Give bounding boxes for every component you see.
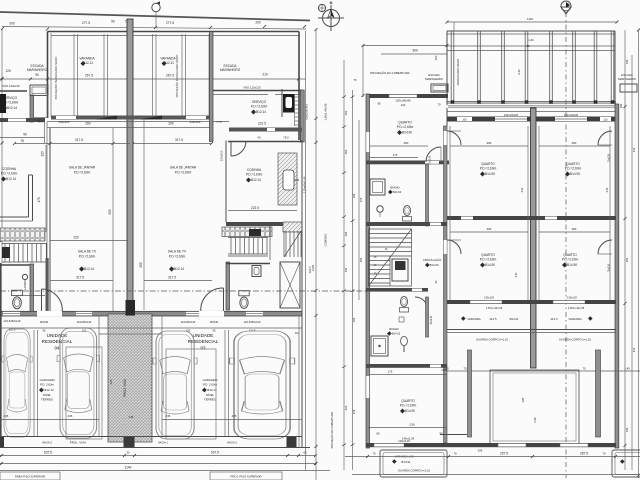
svg-text:B14.90: B14.90 (485, 263, 495, 267)
svg-text:P.D.=2,60m: P.D.=2,60m (246, 173, 263, 177)
cozinha right appliances (222, 227, 272, 237)
cozinha right top wall + door (229, 128, 302, 132)
svg-text:75: 75 (353, 78, 357, 82)
svg-text:P.D.=2,60m: P.D.=2,60m (251, 105, 268, 109)
escada marinheiro box left (30, 85, 48, 96)
svg-text:253: 253 (625, 257, 629, 262)
svg-text:120: 120 (5, 69, 11, 73)
dim lines under verandah wall (47, 121, 229, 123)
sala de jantar left wall (49, 128, 51, 312)
entrance door left unit (41, 289, 43, 312)
right terrace wall y85 (213, 90, 302, 92)
svg-text:PERGOLADO VAZIO: PERGOLADO VAZIO (456, 58, 460, 86)
svg-text:40: 40 (257, 136, 261, 140)
svg-text:423: 423 (344, 405, 348, 410)
svg-text:B14.92: B14.92 (392, 332, 401, 336)
left edge dim line (1, 29, 3, 263)
lavabo right (226, 262, 230, 310)
svg-text:175: 175 (388, 370, 393, 374)
svg-text:VARANDA: VARANDA (160, 57, 176, 61)
svg-text:120x140x95: 120x140x95 (395, 99, 411, 103)
svg-text:263: 263 (344, 149, 348, 154)
pergola structure (447, 30, 615, 32)
svg-text:PROL. VIGA: PROL. VIGA (70, 441, 86, 445)
left side vertical dim lines right plan (343, 60, 345, 470)
svg-text:COMODO: COMODO (324, 234, 328, 246)
svg-text:85: 85 (526, 44, 530, 48)
svg-text:P.D.=2,60m: P.D.=2,60m (397, 125, 414, 129)
outer walls right plan (366, 94, 370, 448)
svg-text:100x140x95: 100x140x95 (564, 113, 579, 117)
svg-text:PROJEÇÃO PERGOLADO VAZIO: PROJEÇÃO PERGOLADO VAZIO (53, 56, 58, 100)
svg-text:235: 235 (4, 414, 9, 418)
svg-text:P.D.=2,60m: P.D.=2,60m (79, 255, 96, 259)
pergola bottom lines with beam feet (447, 101, 616, 103)
svg-text:VÃO 120x210: VÃO 120x210 (2, 83, 20, 88)
svg-text:P.D.=2,60m: P.D.=2,60m (565, 167, 582, 171)
svg-text:BANHO: BANHO (390, 186, 400, 190)
svg-text:SALA DE TV: SALA DE TV (168, 250, 187, 254)
svg-text:30: 30 (126, 451, 130, 455)
svg-text:280: 280 (572, 141, 577, 145)
svg-text:QUARTO: QUARTO (398, 121, 412, 125)
svg-text:90: 90 (35, 73, 39, 77)
svg-text:SALA DE JANTAR: SALA DE JANTAR (170, 166, 197, 170)
vaga projection rects (66, 347, 102, 439)
svg-text:70: 70 (372, 452, 376, 456)
svg-text:60x210: 60x210 (429, 315, 433, 324)
svg-text:95: 95 (43, 329, 46, 333)
svg-text:B14.90: B14.90 (570, 172, 580, 176)
svg-text:267.5: 267.5 (166, 74, 174, 78)
door sill triangles (95, 116, 117, 120)
svg-text:90: 90 (23, 133, 27, 137)
svg-text:1140: 1140 (125, 466, 132, 470)
svg-text:200: 200 (255, 21, 261, 25)
pergola beams (451, 31, 614, 104)
svg-text:260: 260 (168, 122, 174, 126)
svg-text:317.5: 317.5 (175, 138, 183, 142)
svg-text:VAGA 2: VAGA 2 (227, 441, 237, 445)
svg-text:260: 260 (85, 122, 91, 126)
svg-text:210: 210 (520, 187, 524, 192)
svg-text:145: 145 (129, 415, 134, 419)
under-stair void with X brace (280, 262, 300, 308)
party wall stub dark (126, 300, 136, 316)
svg-text:212.5: 212.5 (551, 317, 558, 321)
top dimension line (2, 27, 306, 30)
cozinha right counter/sink (278, 153, 297, 205)
wall banho2 bottom (366, 364, 447, 368)
vaga divider lines (33, 330, 35, 437)
svg-text:537.5: 537.5 (44, 451, 52, 455)
svg-text:267.5: 267.5 (85, 74, 93, 78)
svg-text:76.5: 76.5 (283, 136, 289, 140)
escada marinheiro hatch right of plan (295, 94, 301, 126)
right unit outer wall (298, 32, 300, 141)
svg-text:277.5: 277.5 (166, 21, 174, 25)
svg-text:122,5x80x140: 122,5x80x140 (244, 320, 261, 324)
svg-text:P.D.=2,60m: P.D.=2,60m (1, 172, 18, 176)
svg-text:TÉRREO: TÉRREO (41, 397, 54, 402)
svg-text:277.5: 277.5 (82, 21, 90, 25)
svg-text:300: 300 (412, 49, 418, 53)
svg-text:1,70x40x1,40: 1,70x40x1,40 (303, 176, 307, 193)
svg-text:120: 120 (401, 103, 406, 107)
door arc cozinha right (231, 141, 246, 156)
bottom varanda box left (380, 450, 447, 477)
svg-text:MARINHEIRO: MARINHEIRO (618, 77, 637, 81)
svg-text:B14.90: B14.90 (567, 263, 577, 267)
svg-text:VARANDA: VARANDA (467, 317, 480, 321)
wall quartos bottom / varanda (447, 300, 616, 304)
stairs right unit upper run (228, 238, 268, 257)
svg-text:170: 170 (37, 197, 41, 203)
svg-text:100: 100 (625, 427, 629, 432)
svg-text:280: 280 (572, 227, 577, 231)
svg-text:B12.14: B12.14 (84, 267, 94, 271)
svg-text:100: 100 (82, 329, 87, 333)
verandah bottom wall (51, 116, 213, 120)
svg-text:1,50x1,40x,95: 1,50x1,40x,95 (486, 306, 503, 310)
quarto row top wall (447, 117, 616, 122)
top wall left section with window (366, 94, 448, 98)
svg-text:253: 253 (344, 110, 348, 115)
guarda corpo rail (447, 329, 616, 331)
svg-text:B14.91: B14.91 (510, 317, 519, 321)
svg-text:GUARDA CORPO h=1,10: GUARDA CORPO h=1,10 (398, 469, 431, 473)
banho 2 (400, 297, 409, 313)
verandah mullions right unit (152, 34, 154, 116)
svg-text:90/240: 90/240 (210, 320, 219, 324)
entrance door right unit (223, 288, 225, 312)
svg-text:254: 254 (344, 267, 348, 272)
svg-text:420: 420 (109, 379, 113, 384)
cars (2, 329, 32, 437)
servico right walls (281, 89, 283, 117)
svg-text:RESIDENCIAL: RESIDENCIAL (42, 339, 73, 344)
svg-text:VARANDA: VARANDA (568, 317, 581, 321)
svg-text:P.D.=2,60m: P.D.=2,60m (169, 255, 186, 259)
svg-text:50: 50 (111, 20, 115, 24)
svg-text:317.5: 317.5 (75, 138, 83, 142)
svg-text:GUARDA CORPO h=1,10: GUARDA CORPO h=1,10 (559, 338, 592, 342)
svg-text:P.D. 2,60m: P.D. 2,60m (203, 383, 218, 387)
svg-text:COZINHA: COZINHA (2, 167, 17, 171)
svg-text:95: 95 (213, 329, 216, 333)
svg-text:MARINHEIRO: MARINHEIRO (27, 68, 48, 72)
hall wall dark (46, 258, 49, 312)
svg-text:240x210: 240x210 (59, 120, 70, 124)
corridor verticals between rooms middle (449, 126, 451, 300)
svg-text:60x(15x140): 60x(15x140) (305, 104, 309, 120)
garage side walls (0, 263, 2, 448)
svg-text:70: 70 (602, 452, 606, 456)
svg-text:254: 254 (344, 231, 348, 236)
corridor wall verticals (426, 164, 429, 226)
section line horizontal (0, 290, 367, 292)
wall quarto1/banho1 (366, 161, 449, 165)
svg-text:VARANDA: VARANDA (79, 57, 95, 61)
svg-text:P.D.=2,60m: P.D.=2,60m (175, 171, 192, 175)
verandah top wall (48, 31, 300, 33)
svg-text:ÁREA PISO SUPERIOR: ÁREA PISO SUPERIOR (15, 475, 45, 479)
window dim labels row (4, 319, 300, 335)
garagem text right (203, 378, 218, 402)
svg-text:103: 103 (352, 317, 356, 322)
central party wall right plan (531, 108, 537, 368)
door arcs corridor (426, 147, 441, 162)
svg-text:70: 70 (463, 367, 467, 371)
svg-text:N: N (330, 1, 333, 5)
svg-text:317.5: 317.5 (76, 276, 84, 280)
317.5 dim lines (14, 143, 130, 145)
svg-text:80: 80 (377, 102, 381, 106)
cozinha right bottom (228, 210, 297, 212)
svg-text:240x210: 240x210 (190, 120, 201, 124)
svg-text:SALA DE TV: SALA DE TV (78, 250, 97, 254)
267.5 dim line across (0, 78, 306, 80)
right unit wall x212 (210, 32, 214, 142)
svg-text:70: 70 (437, 103, 441, 107)
svg-text:PROJ. VIGA: PROJ. VIGA (123, 378, 127, 397)
svg-text:110: 110 (603, 118, 608, 122)
svg-text:77.5: 77.5 (216, 120, 222, 124)
svg-text:1140: 1140 (527, 17, 533, 21)
svg-text:70: 70 (582, 367, 586, 371)
svg-text:CIRCULAÇÃO: CIRCULAÇÃO (423, 257, 442, 262)
dim ticks (1, 25, 306, 31)
svg-text:QUARTO: QUARTO (401, 399, 415, 403)
right side vertical dim lines of left plan (305, 31, 307, 470)
svg-text:B12.14: B12.14 (256, 110, 266, 114)
svg-text:257.5: 257.5 (500, 452, 508, 456)
svg-text:385: 385 (521, 397, 525, 402)
banho 1 (370, 179, 385, 195)
svg-text:UNIDADE: UNIDADE (193, 333, 214, 338)
svg-text:300: 300 (9, 22, 15, 26)
svg-text:175: 175 (393, 153, 398, 157)
svg-text:P.D.=2,60m: P.D.=2,60m (562, 258, 579, 262)
svg-text:B14.90: B14.90 (402, 131, 412, 135)
svg-text:1,50x1,40x,95: 1,50x1,40x,95 (568, 306, 585, 310)
svg-text:PROJEÇÃO DA COBERTURA: PROJEÇÃO DA COBERTURA (370, 70, 410, 75)
stairs left unit (2, 244, 46, 263)
left servico walls (0, 90, 27, 92)
svg-text:BANHO: BANHO (389, 327, 399, 331)
terrace below varanda (447, 370, 640, 372)
svg-text:100: 100 (434, 55, 438, 60)
svg-text:P.D.=2,60m: P.D.=2,60m (74, 171, 91, 175)
svg-text:SERVIÇO: SERVIÇO (252, 100, 267, 104)
varanda strip labels (461, 316, 466, 321)
svg-text:RESIDENCIAL: RESIDENCIAL (188, 339, 219, 344)
site boundary line top (0, 12, 310, 21)
svg-text:130x120: 130x120 (567, 296, 578, 300)
top-left dims of right plan (363, 45, 447, 47)
svg-text:905: 905 (139, 262, 143, 268)
svg-text:70x210: 70x210 (428, 155, 432, 164)
section marker top (561, 1, 571, 11)
proj viga hatched strip (108, 314, 152, 442)
verandah mullions left unit (73, 34, 75, 116)
svg-text:110x210: 110x210 (220, 150, 224, 161)
svg-text:280: 280 (487, 227, 492, 231)
svg-text:537.5: 537.5 (211, 451, 219, 455)
svg-text:235: 235 (232, 414, 237, 418)
svg-text:41.5: 41.5 (37, 120, 43, 124)
small marker circle left of compass (318, 4, 325, 11)
svg-text:215: 215 (359, 197, 363, 202)
svg-text:QUARTO: QUARTO (481, 162, 495, 166)
svg-text:03: 03 (200, 346, 206, 351)
terrace side walls (468, 350, 472, 437)
right edge dim lines (624, 30, 626, 470)
svg-text:B12.13: B12.13 (44, 388, 54, 392)
svg-text:78: 78 (20, 139, 24, 143)
svg-text:P.D. 2,60m: P.D. 2,60m (40, 383, 55, 387)
svg-text:2,40: 2,40 (517, 69, 521, 75)
svg-text:140x(2,39: 140x(2,39 (398, 439, 410, 443)
small wall stub (440, 434, 467, 436)
svg-text:04: 04 (54, 346, 60, 351)
svg-text:B12.13: B12.13 (207, 388, 217, 392)
svg-text:B12.14: B12.14 (7, 106, 17, 110)
front wall gray band with openings (0, 311, 302, 316)
bottom dims (0, 455, 316, 457)
svg-text:B12.14: B12.14 (251, 178, 261, 182)
svg-text:110x80x140: 110x80x140 (77, 320, 92, 324)
svg-text:280: 280 (487, 141, 492, 145)
courtyard rect (490, 370, 579, 444)
svg-text:100: 100 (352, 193, 356, 198)
svg-text:P.D.=2,60m: P.D.=2,60m (480, 167, 497, 171)
svg-text:220: 220 (73, 236, 79, 240)
svg-text:130x120: 130x120 (484, 296, 495, 300)
svg-text:410: 410 (632, 347, 636, 352)
svg-text:280: 280 (619, 103, 623, 108)
svg-text:1225: 1225 (311, 264, 315, 271)
servico tub right (dark) (283, 94, 295, 113)
cozinha left counter (28, 175, 30, 217)
svg-text:80: 80 (376, 432, 380, 436)
cozinha left appliances row (0, 228, 45, 241)
svg-text:GUARDA CORPO h=1,10: GUARDA CORPO h=1,10 (476, 338, 509, 342)
svg-text:VÃO 120x210: VÃO 120x210 (243, 85, 261, 90)
svg-text:B12.14: B12.14 (174, 267, 184, 271)
svg-text:MARINHEIRO: MARINHEIRO (425, 77, 444, 81)
svg-text:235: 235 (166, 414, 171, 418)
svg-text:100x140x95: 100x140x95 (504, 113, 519, 117)
svg-text:1,50x1,40x,95: 1,50x1,40x,95 (324, 103, 328, 120)
svg-text:B14.90: B14.90 (430, 263, 439, 267)
svg-text:SALA DE JANTAR: SALA DE JANTAR (69, 166, 96, 170)
bottom varanda box right (cropped) (612, 450, 640, 477)
svg-text:235: 235 (68, 414, 73, 418)
svg-text:212.5: 212.5 (490, 317, 497, 321)
stairs right unit vertical run (270, 226, 301, 260)
servico tub left cropped (0, 94, 6, 113)
svg-text:100: 100 (625, 59, 629, 64)
svg-text:LAVABO: LAVABO (23, 280, 27, 290)
svg-text:133: 133 (41, 151, 45, 157)
svg-text:QUARTO: QUARTO (481, 253, 495, 257)
wall stairs bottom (366, 288, 428, 292)
svg-text:90/240: 90/240 (40, 320, 49, 324)
svg-text:210: 210 (514, 272, 518, 277)
svg-text:PROJ. PISO SUPERIOR: PROJ. PISO SUPERIOR (230, 475, 261, 479)
svg-text:254: 254 (359, 257, 363, 262)
svg-text:1,40: 1,40 (528, 38, 534, 42)
svg-text:210: 210 (605, 187, 609, 192)
svg-text:B12.14: B12.14 (6, 177, 16, 181)
vaga labels (42, 441, 237, 445)
svg-text:QUARTO: QUARTO (563, 253, 577, 257)
svg-text:B14.91: B14.91 (401, 460, 411, 464)
wall banho1 bottom (366, 222, 447, 226)
inner verticals pergola edge (446, 108, 448, 126)
stairs upper floor (369, 229, 412, 286)
svg-text:MARINHEIRO: MARINHEIRO (220, 68, 241, 72)
svg-text:1,40: 1,40 (443, 367, 449, 371)
svg-text:QUARTO: QUARTO (566, 162, 580, 166)
svg-text:VAGA 1: VAGA 1 (158, 441, 168, 445)
svg-text:278: 278 (352, 409, 356, 414)
svg-text:222.5: 222.5 (258, 122, 266, 126)
svg-text:2,90: 2,90 (533, 417, 537, 423)
north compass (318, 1, 344, 31)
svg-text:COZINHA: COZINHA (247, 168, 262, 172)
section dashed centerline (565, 12, 567, 478)
svg-text:NÍVEL: NÍVEL (206, 393, 215, 397)
svg-text:B14.90: B14.90 (485, 172, 495, 176)
garagem text left (40, 378, 55, 402)
garage bottom lines (0, 327, 302, 329)
survey marker (152, 3, 160, 11)
svg-text:122,5x80x140: 122,5x80x140 (4, 319, 21, 323)
sala dim verticals (112, 128, 114, 311)
svg-text:GARAGEM: GARAGEM (40, 378, 55, 382)
svg-text:B14.90: B14.90 (405, 409, 415, 413)
lavabo left (30, 264, 34, 312)
svg-text:210: 210 (262, 73, 268, 77)
svg-text:NÍVEL: NÍVEL (43, 393, 52, 397)
svg-text:3,56: 3,56 (409, 423, 415, 427)
svg-text:122.5: 122.5 (249, 329, 256, 333)
svg-text:TÉRREO: TÉRREO (204, 397, 217, 402)
svg-text:70: 70 (453, 452, 457, 456)
bottom edge boxed labels (0, 470, 330, 472)
svg-text:287.5: 287.5 (580, 452, 588, 456)
svg-text:100: 100 (462, 118, 467, 122)
svg-text:VAGA 2: VAGA 2 (42, 441, 52, 445)
column at strip bottom (124, 436, 135, 447)
central party wall (127, 19, 133, 315)
svg-text:317.5: 317.5 (168, 276, 176, 280)
bottom dims right plan (345, 456, 640, 458)
svg-text:280: 280 (404, 141, 409, 145)
svg-text:P.D.=2,60m: P.D.=2,60m (400, 404, 417, 408)
svg-text:P.D.=2,60m: P.D.=2,60m (480, 258, 497, 262)
left outer wall (47, 32, 49, 119)
svg-text:B14.92: B14.92 (393, 190, 402, 194)
svg-text:210: 210 (632, 147, 636, 152)
wall between quarto rows (447, 216, 616, 220)
door arcs right edge (598, 131, 612, 145)
bottom wall right plan (366, 443, 616, 447)
svg-text:222.5: 222.5 (251, 206, 259, 210)
svg-text:110x80x140: 110x80x140 (181, 320, 196, 324)
